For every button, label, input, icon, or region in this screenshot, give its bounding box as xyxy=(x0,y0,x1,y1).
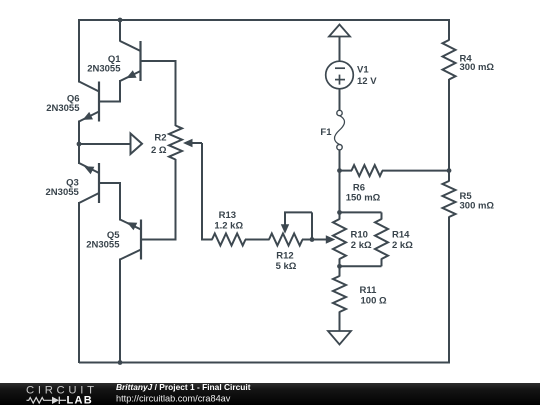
svg-text:2 kΩ: 2 kΩ xyxy=(392,240,413,251)
svg-text:BrittanyJ / Project 1 - Final: BrittanyJ / Project 1 - Final Circuit xyxy=(116,382,251,392)
svg-text:V1: V1 xyxy=(357,65,369,76)
svg-text:5 kΩ: 5 kΩ xyxy=(276,261,297,272)
svg-text:2N3055: 2N3055 xyxy=(86,240,120,251)
svg-text:http://circuitlab.com/cra84av: http://circuitlab.com/cra84av xyxy=(116,394,231,404)
svg-text:2N3055: 2N3055 xyxy=(46,187,80,198)
svg-text:2 kΩ: 2 kΩ xyxy=(351,240,372,251)
svg-text:F1: F1 xyxy=(320,127,332,138)
svg-text:R14: R14 xyxy=(392,230,410,241)
svg-text:R11: R11 xyxy=(360,285,378,296)
svg-text:2N3055: 2N3055 xyxy=(87,64,121,75)
svg-text:300 mΩ: 300 mΩ xyxy=(460,201,495,212)
svg-text:12 V: 12 V xyxy=(357,76,377,87)
svg-text:1.2 kΩ: 1.2 kΩ xyxy=(214,220,243,231)
svg-text:2N3055: 2N3055 xyxy=(46,103,80,114)
svg-text:100 Ω: 100 Ω xyxy=(361,296,387,307)
svg-text:150 mΩ: 150 mΩ xyxy=(346,192,381,203)
svg-text:R2: R2 xyxy=(154,133,166,144)
svg-text:2 Ω: 2 Ω xyxy=(151,145,167,156)
svg-text:R10: R10 xyxy=(351,230,368,241)
svg-text:300 mΩ: 300 mΩ xyxy=(460,62,495,73)
svg-text:LAB: LAB xyxy=(67,395,94,405)
